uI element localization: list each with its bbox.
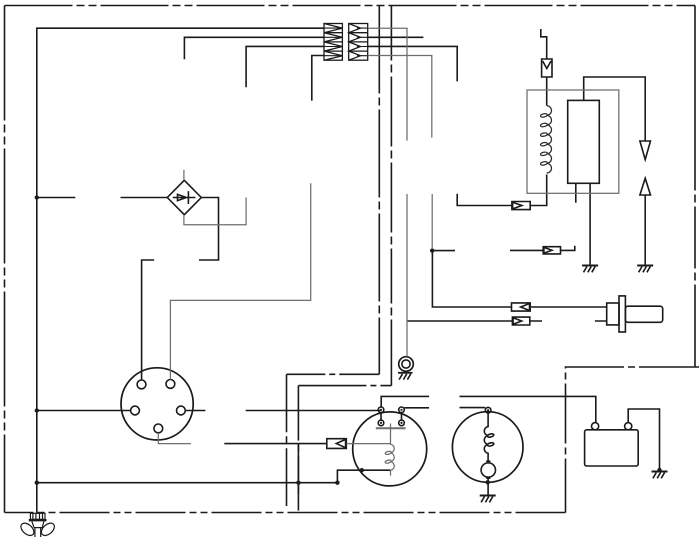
wire plug top [432, 251, 511, 307]
wire source ground [487, 479, 489, 496]
wire distributor left [37, 410, 131, 412]
noise suppressor outer [399, 357, 414, 372]
ignition coil secondary rect [568, 100, 600, 183]
distributor terminal TL [137, 380, 146, 389]
battery terminal - [625, 423, 632, 430]
distributor terminal TR [166, 380, 175, 389]
wire CDI drop gray [431, 194, 433, 249]
frame boundary bottom [5, 512, 566, 514]
junction dot G [486, 480, 490, 484]
wing bolt [19, 513, 57, 537]
source lamp circle [481, 463, 495, 477]
wire plug body lead [407, 320, 513, 322]
wire battery feed [381, 396, 596, 422]
junction dot D [296, 481, 300, 485]
section boundary inner L [390, 6, 392, 386]
points coil gray [391, 424, 395, 476]
connector half right [349, 24, 368, 61]
battery terminal + [592, 423, 599, 430]
connector half left [324, 24, 342, 61]
coil lead connector [542, 59, 552, 77]
wire bottom bus [37, 470, 391, 483]
wire row3 resume to fuse [457, 194, 512, 206]
distributor circle [121, 368, 193, 440]
source coil terminal [485, 407, 491, 413]
wire distributor B gray [158, 433, 191, 444]
section boundary outer L [378, 6, 380, 375]
wire bus left [37, 28, 324, 513]
wire plug lead [530, 306, 607, 308]
wire row3 right [368, 46, 458, 81]
wire box5 to points gray [346, 443, 390, 445]
wire box2 left stub [432, 249, 543, 251]
wire arrow ground [644, 195, 646, 265]
wire secondary ground [589, 183, 591, 265]
wire row4 left [312, 56, 324, 101]
ground secondary [582, 266, 598, 273]
junction dot C [35, 481, 39, 485]
wire connector to coil [546, 77, 548, 106]
connector box 5 [327, 439, 347, 449]
rectifier diode symbol [173, 191, 196, 204]
source coil winding [484, 413, 488, 462]
wire secondary stub [575, 183, 577, 202]
wire row2 right stub [368, 36, 424, 38]
wire magneto link [404, 407, 485, 409]
junction dot E [335, 481, 339, 485]
ground arrow [637, 266, 653, 273]
wire box2 right tick [561, 246, 575, 251]
frame boundary left [4, 6, 6, 513]
wire rectifier left [37, 197, 168, 199]
noise suppressor inner [402, 360, 410, 368]
spark plug [607, 296, 663, 332]
ignition source circle [452, 412, 523, 483]
wire battery ground [628, 409, 659, 469]
wire HT lead gray [368, 28, 407, 356]
wire after box 4 [530, 320, 607, 322]
junction dot A [35, 195, 39, 199]
distributor terminal L [131, 406, 140, 415]
frame boundary top [5, 5, 696, 7]
junction dot H [657, 468, 661, 472]
battery compartment boundary [566, 367, 699, 513]
ignition coil case [527, 90, 619, 193]
wire CDI line [224, 443, 326, 445]
junction dot B [35, 408, 39, 412]
wire row4 gray drop [368, 56, 432, 138]
rectifier diamond [167, 180, 201, 214]
breaker points bar [376, 427, 406, 429]
connector box 4 [512, 317, 529, 325]
battery [585, 430, 639, 466]
wire distributor right [185, 410, 380, 412]
connector box 2 [543, 247, 560, 254]
frame boundary right [694, 6, 696, 368]
ground source [480, 496, 496, 503]
junction dot I [430, 248, 434, 252]
coil primary bottom wire [530, 175, 547, 206]
wire row3 left [246, 46, 324, 87]
arrow down [640, 141, 651, 160]
wire distributor TR gray [170, 183, 310, 379]
distributor terminal B [154, 424, 163, 433]
junction dot F [360, 468, 364, 472]
rectifier stubs gray [184, 170, 246, 225]
ignition coil primary winding [540, 106, 551, 173]
arrow up [640, 178, 651, 195]
distributor terminal R [177, 406, 186, 415]
magneto terminal posts [378, 407, 404, 426]
wire row2 left [184, 37, 324, 59]
ground battery [652, 472, 668, 479]
wire rectifier right to distributor [142, 198, 219, 381]
ground suppressor [398, 373, 413, 380]
wire secondary top [584, 77, 646, 141]
ignition coil primary wire top [541, 29, 547, 59]
wire branch at boundary [297, 444, 299, 494]
fuse connector 1 [512, 202, 530, 210]
connector box 3 [512, 303, 531, 311]
magneto flywheel circle [353, 412, 427, 486]
